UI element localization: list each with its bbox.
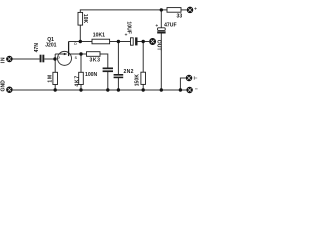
wire R 10K1 to C 10UF bbox=[110, 41, 131, 43]
capacitor 10UF polarity + bbox=[125, 33, 127, 35]
svg-text:47N: 47N bbox=[34, 43, 40, 53]
transistor Q1 channel bar bbox=[68, 42, 70, 57]
connector battery switch pad bbox=[186, 75, 191, 80]
wire 10K bottom to drain node bbox=[79, 25, 81, 41]
wire drain to R 10K1 bbox=[69, 41, 92, 43]
wire R 1M to ground rail bbox=[54, 85, 56, 91]
junction node rail 150K bbox=[142, 88, 145, 91]
svg-text:1M: 1M bbox=[48, 74, 54, 82]
svg-text:4K7: 4K7 bbox=[74, 75, 80, 87]
connector OUT pad bbox=[150, 39, 156, 45]
svg-text:IN: IN bbox=[0, 57, 6, 64]
resistor 10K1 (drain series) bbox=[92, 39, 110, 44]
connector ground out mark bbox=[195, 88, 198, 90]
svg-text:GND: GND bbox=[1, 80, 7, 92]
junction node supply rail bbox=[160, 8, 163, 11]
wire C 47UF to ground rail bbox=[160, 34, 162, 91]
wire gate node to R 1M bbox=[54, 59, 56, 72]
capacitor 100N (source network) bbox=[103, 68, 113, 73]
junction node rail 100N bbox=[106, 88, 109, 91]
wire drain node to C 2N2 bbox=[117, 42, 119, 75]
svg-text:G: G bbox=[57, 55, 60, 59]
wire gate riser bbox=[54, 54, 56, 59]
junction node rail battery stub bbox=[179, 88, 182, 91]
resistor 1M (gate to ground) bbox=[53, 72, 58, 84]
resistor 150K (output to ground) bbox=[141, 72, 146, 84]
wire top rail V+ bbox=[80, 10, 167, 13]
connector battery + pad bbox=[187, 7, 192, 12]
connector battery switch mark bbox=[194, 76, 197, 80]
resistor 33 (supply filter) bbox=[167, 8, 181, 13]
connector battery + label bbox=[194, 7, 196, 9]
junction node 2N2 top bbox=[117, 40, 120, 43]
svg-text:100N: 100N bbox=[85, 72, 97, 78]
capacitor 47UF (supply filter, electrolytic) bbox=[158, 28, 166, 31]
wire R 150K to ground rail bbox=[142, 84, 144, 90]
wire source to node bbox=[69, 53, 87, 55]
connector GND pad bbox=[7, 87, 12, 92]
junction node gate bbox=[53, 57, 56, 60]
junction node drain bbox=[79, 40, 82, 43]
wire R 33 to battery + jack bbox=[181, 9, 187, 11]
svg-text:2N2: 2N2 bbox=[124, 69, 134, 75]
svg-text:3K3: 3K3 bbox=[90, 57, 101, 63]
wire input from IN jack to C 47N bbox=[12, 58, 39, 60]
wire gate horizontal bbox=[55, 53, 64, 55]
wire out node to R 150K bbox=[142, 42, 144, 73]
junction node output bbox=[142, 40, 145, 43]
wire ground rail bbox=[13, 89, 187, 91]
junction node rail 47UF bbox=[160, 88, 163, 91]
wire rail node to C 47UF bbox=[160, 10, 162, 28]
transistor Q1 gate arrowhead bbox=[64, 53, 68, 56]
capacitor 10UF (output, electrolytic) bbox=[131, 38, 134, 45]
svg-text:150K: 150K bbox=[135, 74, 141, 86]
wire C 47N to gate node bbox=[44, 58, 55, 60]
resistor 4K7 (source to ground) bbox=[79, 72, 84, 84]
svg-text:OUT: OUT bbox=[156, 40, 162, 52]
svg-text:10K1: 10K1 bbox=[93, 33, 105, 39]
resistor 10K (drain to V+) bbox=[78, 12, 83, 25]
wire source node to R 4K7 bbox=[80, 54, 82, 72]
transistor Q1 J201 circle bbox=[58, 51, 72, 65]
svg-text:10UF: 10UF bbox=[126, 21, 132, 33]
connector ground out pad bbox=[187, 87, 192, 92]
junction node source bbox=[79, 52, 82, 55]
svg-text:J201: J201 bbox=[45, 42, 56, 48]
capacitor 47UF polarity + bbox=[156, 24, 158, 26]
resistor 3K3 (source network) bbox=[87, 52, 101, 57]
capacitor 47N (input) bbox=[40, 55, 45, 63]
junction node rail 1M bbox=[54, 88, 57, 91]
wire R 3K3 to C 100N bbox=[100, 54, 108, 68]
wire C 100N to ground rail bbox=[107, 72, 109, 90]
svg-text:47UF: 47UF bbox=[164, 23, 176, 29]
capacitor 2N2 (drain to ground) bbox=[114, 74, 124, 78]
svg-text:33: 33 bbox=[177, 14, 183, 20]
wire C 2N2 to ground rail bbox=[117, 78, 119, 91]
svg-text:10K: 10K bbox=[82, 14, 88, 24]
wire R 4K7 to ground rail bbox=[80, 85, 82, 91]
wire C 10UF to OUT jack bbox=[137, 41, 149, 43]
junction node rail 2N2 bbox=[117, 88, 120, 91]
wire battery - jack stub bbox=[180, 78, 185, 90]
junction node rail 4K7 bbox=[79, 88, 82, 91]
connector IN pad bbox=[7, 56, 12, 61]
